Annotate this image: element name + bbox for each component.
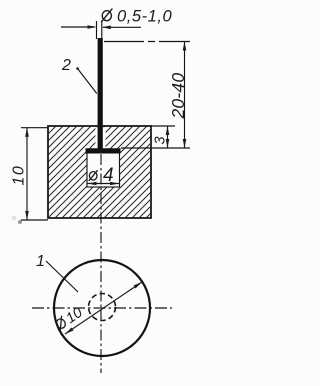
svg-text:1: 1 xyxy=(36,253,45,270)
svg-text:20-40: 20-40 xyxy=(168,73,188,120)
svg-text:10: 10 xyxy=(11,165,28,186)
svg-text:2: 2 xyxy=(61,57,71,74)
svg-text:0,5-1,0: 0,5-1,0 xyxy=(117,8,172,26)
svg-text:3: 3 xyxy=(153,136,169,144)
